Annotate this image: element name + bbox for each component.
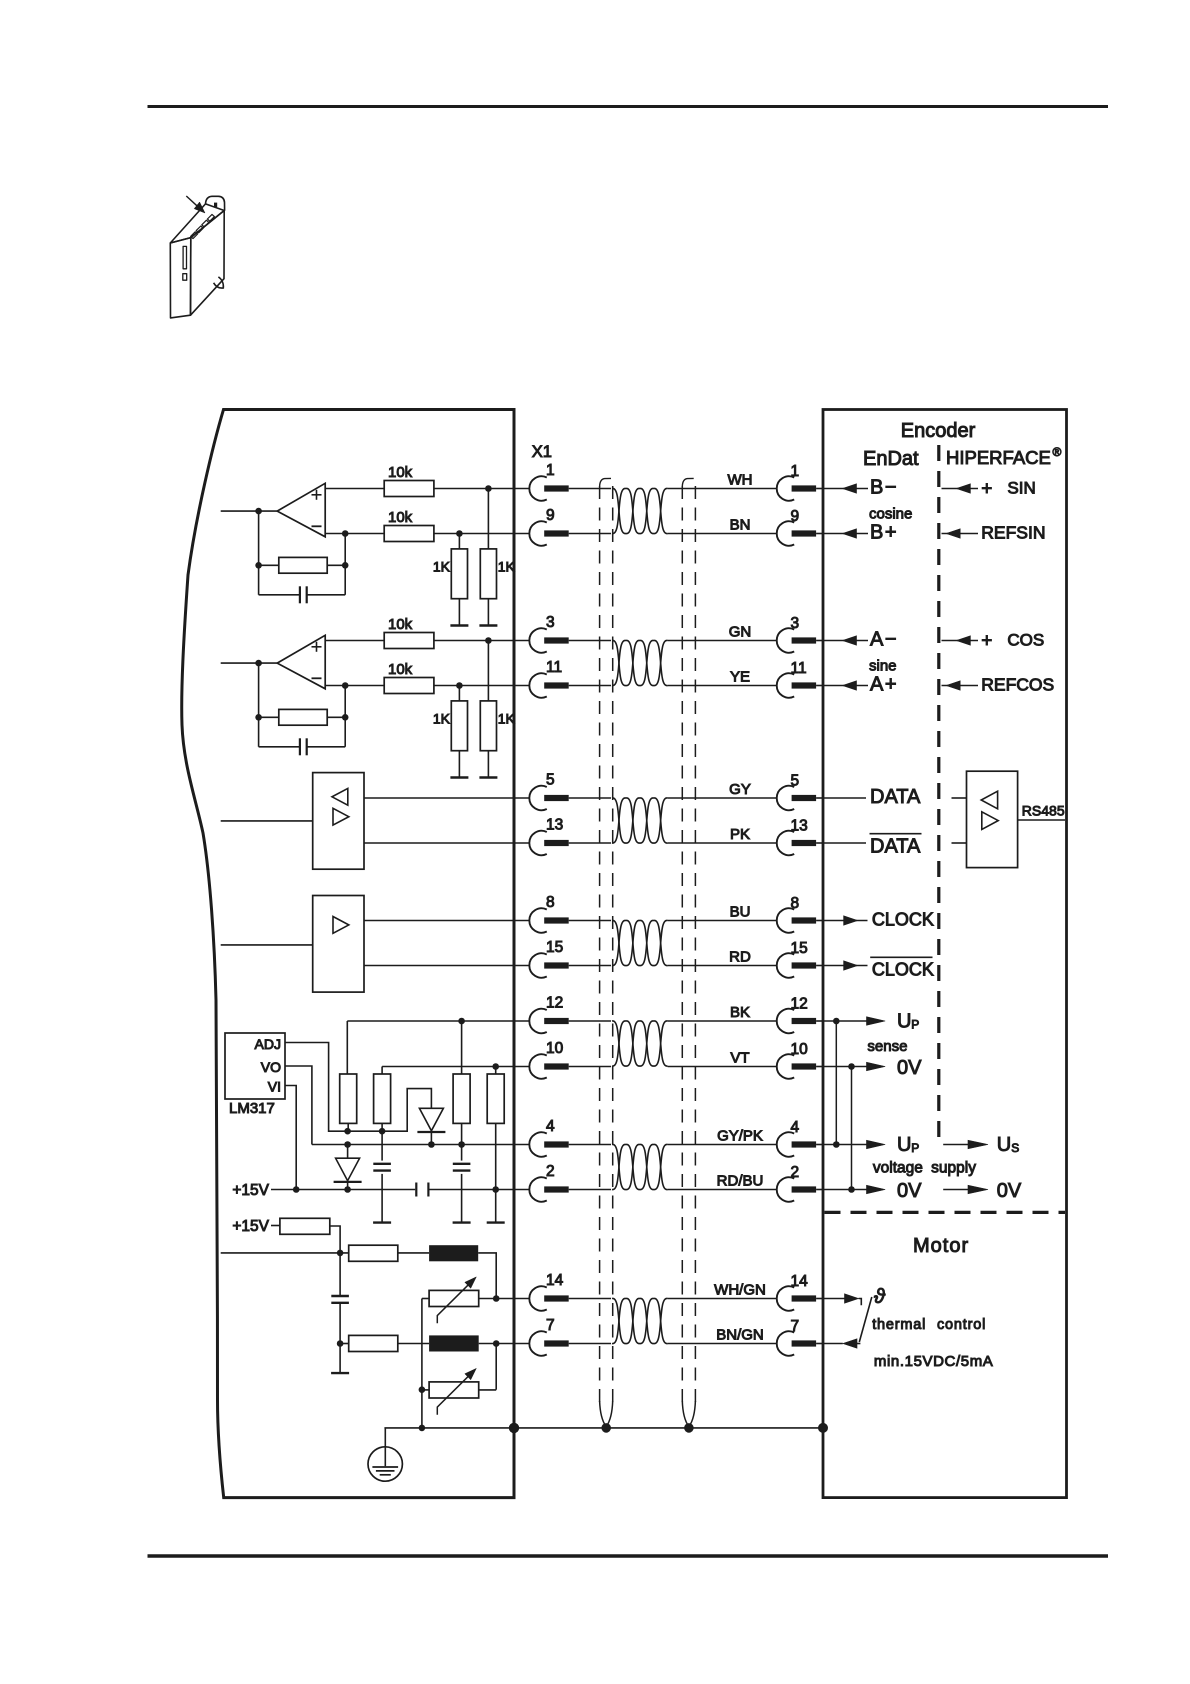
svg-text:PK: PK: [730, 826, 750, 843]
svg-text:ADJ: ADJ: [255, 1036, 281, 1052]
svg-text:7: 7: [791, 1318, 800, 1335]
svg-text:VT: VT: [730, 1050, 749, 1067]
svg-text:+: +: [981, 631, 992, 652]
svg-text:10k: 10k: [388, 616, 413, 633]
svg-text:10k: 10k: [388, 661, 413, 678]
svg-text:LM317: LM317: [229, 1100, 275, 1117]
svg-text:+15V: +15V: [232, 1218, 269, 1235]
svg-text:BK: BK: [730, 1004, 750, 1021]
svg-text:12: 12: [546, 995, 563, 1012]
svg-text:13: 13: [791, 818, 808, 835]
svg-text:2: 2: [791, 1164, 800, 1181]
svg-text:SIN: SIN: [1007, 479, 1035, 498]
svg-text:sine: sine: [869, 658, 897, 675]
svg-text:3: 3: [546, 614, 555, 631]
svg-text:+15V: +15V: [232, 1182, 269, 1199]
svg-text:voltage supply: voltage supply: [873, 1159, 976, 1176]
svg-text:HIPERFACE: HIPERFACE: [946, 447, 1051, 468]
svg-text:A+: A+: [870, 674, 898, 696]
svg-text:RS485: RS485: [1022, 802, 1065, 818]
svg-text:10: 10: [546, 1040, 564, 1057]
svg-text:CLOCK: CLOCK: [872, 910, 934, 930]
svg-text:1K: 1K: [498, 558, 516, 574]
svg-text:sense: sense: [867, 1038, 907, 1055]
svg-text:WH/GN: WH/GN: [714, 1282, 766, 1299]
svg-text:RD/BU: RD/BU: [717, 1173, 764, 1190]
svg-text:10k: 10k: [388, 509, 413, 526]
svg-text:X1: X1: [532, 443, 552, 461]
svg-text:8: 8: [546, 894, 555, 911]
svg-text:+: +: [981, 479, 992, 500]
svg-text:cosine: cosine: [869, 506, 912, 523]
svg-text:thermal control: thermal control: [872, 1317, 986, 1333]
svg-text:9: 9: [791, 508, 800, 525]
svg-text:min.15VDC/5mA: min.15VDC/5mA: [874, 1353, 994, 1370]
svg-text:®: ®: [1053, 445, 1062, 459]
svg-text:4: 4: [546, 1118, 555, 1135]
svg-text:BU: BU: [730, 904, 751, 921]
svg-text:15: 15: [546, 939, 563, 956]
svg-text:YE: YE: [730, 669, 750, 686]
svg-text:VI: VI: [268, 1079, 281, 1095]
svg-text:REFSIN: REFSIN: [981, 523, 1045, 543]
svg-text:U: U: [997, 1134, 1011, 1156]
svg-text:BN: BN: [730, 517, 751, 534]
svg-text:13: 13: [546, 817, 563, 834]
svg-text:0V: 0V: [897, 1180, 922, 1202]
svg-text:U: U: [897, 1134, 911, 1156]
svg-text:P: P: [911, 1141, 919, 1155]
svg-text:S: S: [1011, 1141, 1019, 1155]
svg-text:10k: 10k: [388, 464, 413, 481]
svg-text:11: 11: [546, 659, 562, 676]
svg-text:A−: A−: [870, 629, 898, 651]
svg-text:3: 3: [791, 615, 800, 632]
svg-text:9: 9: [546, 507, 555, 524]
svg-text:14: 14: [791, 1273, 809, 1290]
svg-text:EnDat: EnDat: [863, 448, 919, 470]
svg-text:B−: B−: [870, 477, 898, 499]
svg-text:4: 4: [791, 1119, 800, 1136]
svg-text:U: U: [897, 1011, 911, 1033]
svg-text:2: 2: [546, 1163, 555, 1180]
svg-text:RD: RD: [729, 949, 751, 966]
svg-text:1: 1: [546, 462, 555, 479]
svg-text:VO: VO: [261, 1059, 281, 1075]
svg-text:ϑ: ϑ: [874, 1286, 886, 1308]
svg-text:Encoder: Encoder: [901, 420, 976, 442]
svg-text:0V: 0V: [997, 1180, 1022, 1202]
svg-text:5: 5: [546, 772, 555, 789]
svg-text:COS: COS: [1007, 631, 1044, 650]
svg-text:GY/PK: GY/PK: [717, 1128, 763, 1145]
svg-text:DATA: DATA: [870, 786, 921, 808]
svg-text:GY: GY: [729, 781, 751, 798]
svg-text:1K: 1K: [433, 558, 451, 574]
svg-text:0V: 0V: [897, 1057, 922, 1079]
svg-text:5: 5: [791, 773, 800, 790]
svg-text:REFCOS: REFCOS: [981, 675, 1054, 695]
svg-text:12: 12: [791, 996, 808, 1013]
svg-text:DATA: DATA: [870, 836, 921, 858]
svg-text:GN: GN: [729, 624, 752, 641]
svg-text:1K: 1K: [433, 710, 451, 726]
svg-text:7: 7: [546, 1317, 555, 1334]
svg-text:15: 15: [791, 940, 808, 957]
svg-text:BN/GN: BN/GN: [716, 1327, 764, 1344]
svg-text:CLOCK: CLOCK: [872, 960, 934, 980]
svg-text:1: 1: [791, 463, 800, 480]
svg-text:10: 10: [791, 1041, 809, 1058]
svg-text:Motor: Motor: [913, 1235, 969, 1257]
svg-text:WH: WH: [728, 472, 753, 489]
svg-text:P: P: [911, 1018, 919, 1032]
svg-text:11: 11: [791, 660, 807, 677]
svg-text:B+: B+: [870, 522, 898, 544]
svg-text:8: 8: [791, 895, 800, 912]
svg-text:14: 14: [546, 1272, 564, 1289]
svg-text:1K: 1K: [498, 710, 516, 726]
